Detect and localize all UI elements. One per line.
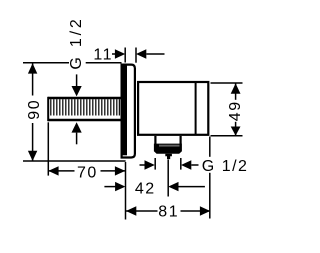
dim 90 extension line bottom	[23, 160, 126, 162]
svg-text:G 1/2: G 1/2	[68, 16, 85, 69]
outlet tip	[165, 154, 172, 159]
dim 49 line	[235, 83, 237, 100]
dim 90 arrow down	[28, 151, 37, 161]
dim 49 extension lines	[211, 82, 243, 84]
dim 90 extension line top	[23, 62, 69, 64]
dim 11 left tail and arrow	[112, 53, 115, 55]
svg-text:70: 70	[77, 164, 98, 181]
dim G 1/2 bottom right arrow and tail	[181, 160, 191, 169]
dim 11 right arrow and tail	[136, 49, 146, 58]
threaded pipe outline	[48, 98, 121, 120]
wall plate (escutcheon) outline	[122, 65, 135, 158]
wall plate left face (heavy)	[121, 64, 127, 156]
leader arrow up to pipe bottom	[72, 122, 82, 132]
dim 90 arrow up	[28, 63, 37, 73]
shared wall extension line	[125, 162, 127, 220]
dim 81 arrows	[126, 206, 136, 215]
svg-text:90: 90	[26, 99, 43, 120]
svg-text:49: 49	[227, 100, 244, 121]
outlet centre extension line	[167, 160, 169, 197]
dim 11 extension lines	[124, 48, 126, 63]
dim 70 line	[48, 170, 74, 172]
leader tail below	[76, 133, 78, 145]
svg-text:G 1/2: G 1/2	[202, 158, 249, 175]
pipe left end	[47, 97, 49, 121]
body block	[138, 82, 208, 135]
dim 81 line	[126, 210, 158, 212]
dim G 1/2 extension lines	[154, 158, 156, 170]
dim 70 arrows	[48, 166, 58, 175]
dim 81 right extension line (split at G)	[209, 137, 211, 157]
svg-text:42: 42	[135, 181, 156, 198]
outlet neck	[154, 136, 156, 144]
outlet nut G 1/2	[154, 144, 182, 154]
leader line G 1/2 top	[76, 74, 78, 88]
dim 42 right arrow and tail	[168, 182, 178, 191]
dim 42 left tail and arrow	[104, 186, 116, 188]
dim 49 arrows	[231, 83, 241, 93]
pipe thread hatch	[51, 99, 120, 115]
body front face line	[195, 82, 197, 135]
dim 70 left extension	[47, 122, 49, 175]
leader arrow down to pipe top	[72, 86, 82, 96]
dim 90 line	[32, 63, 34, 95]
svg-text:11: 11	[93, 47, 113, 64]
svg-text:81: 81	[158, 203, 179, 220]
dim G 1/2 bottom left tail and arrow	[140, 164, 145, 166]
